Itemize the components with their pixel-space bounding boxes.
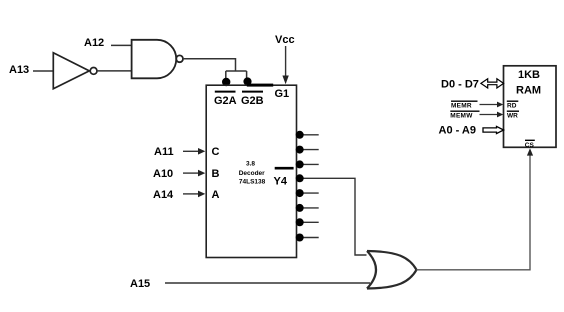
junction dot Y7 — [296, 218, 304, 226]
wire A13 to inverter — [33, 70, 54, 72]
junction dot Y2 — [296, 160, 304, 168]
svg-text:A0 - A9: A0 - A9 — [439, 125, 477, 137]
svg-text:A14: A14 — [153, 189, 174, 201]
junction dot Y0 — [296, 131, 304, 139]
pin label Y4 (active low) — [274, 168, 294, 187]
inverter U2 (NOT gate) — [53, 53, 97, 89]
svg-text:C: C — [212, 146, 220, 158]
svg-text:D0 - D7: D0 - D7 — [441, 78, 479, 90]
OR gate U4 — [367, 251, 417, 289]
junction dot Y4 — [296, 174, 304, 182]
junction dot Y6 — [296, 204, 304, 212]
junction dot Y8 — [296, 234, 304, 242]
output stub Y5 — [297, 192, 319, 194]
svg-text:WR: WR — [507, 113, 518, 120]
svg-text:A12: A12 — [84, 37, 104, 49]
svg-text:A15: A15 — [130, 278, 150, 290]
wire Y4 output to OR gate — [297, 178, 367, 255]
svg-text:RAM: RAM — [516, 85, 541, 97]
svg-text:Y4: Y4 — [274, 176, 288, 188]
wire A14 to pin A with arrowhead — [183, 191, 205, 198]
pin label G2B (active low) — [241, 92, 264, 107]
wire OR output to RAM CS with arrowhead — [417, 148, 534, 270]
output stub Y2 — [297, 163, 319, 165]
thick top edge segment — [247, 84, 273, 87]
wire Vcc to G1 with arrowhead — [282, 46, 288, 84]
svg-text:G2A: G2A — [214, 95, 237, 107]
output stub Y6 — [297, 207, 319, 209]
label MEMW (active low) — [450, 111, 479, 120]
svg-text:Vcc: Vcc — [275, 34, 295, 46]
wire MEMW to WR with arrowhead — [480, 112, 504, 118]
svg-text:RD: RD — [507, 103, 517, 110]
wire A15 to OR gate — [165, 282, 370, 284]
output stub Y0 — [297, 134, 319, 136]
svg-text:MEMW: MEMW — [450, 113, 473, 120]
NAND gate U3 — [132, 40, 183, 79]
svg-text:G1: G1 — [275, 88, 290, 100]
wire MEMR to RD with arrowhead — [480, 102, 504, 108]
wire NAND output to enable dots — [183, 59, 247, 80]
svg-text:Decoder: Decoder — [239, 170, 265, 177]
pin label RD (active low) — [507, 101, 519, 110]
pin label G2A (active low) — [214, 92, 237, 107]
junction dot Y1 — [296, 146, 304, 154]
svg-text:3.8: 3.8 — [246, 160, 255, 167]
output stub Y8 — [297, 237, 319, 239]
svg-text:A11: A11 — [154, 146, 174, 158]
decoder U1 74LS138 box — [206, 85, 296, 257]
value label 3.8 Decoder 74LS138 — [239, 160, 266, 185]
junction dot G2B — [243, 77, 251, 85]
output stub Y1 — [297, 149, 319, 151]
svg-text:A10: A10 — [153, 168, 173, 180]
wire A10 to pin B with arrowhead — [183, 170, 205, 177]
wire inverter to NAND input — [97, 70, 132, 72]
bidirectional bus arrow D0-D7 — [481, 79, 504, 88]
wire A12 to NAND input — [111, 44, 132, 46]
wire A11 to pin C with arrowhead — [183, 148, 205, 155]
pin label CS (active low) — [525, 140, 535, 149]
RAM U5 box — [504, 66, 557, 148]
junction dot Y5 — [296, 189, 304, 197]
svg-text:MEMR: MEMR — [451, 103, 472, 110]
svg-text:1KB: 1KB — [518, 69, 540, 81]
svg-text:A: A — [212, 189, 220, 201]
svg-text:74LS138: 74LS138 — [239, 178, 266, 185]
svg-text:B: B — [212, 168, 220, 180]
svg-text:G2B: G2B — [241, 95, 264, 107]
bus arrow A0-A9 — [483, 126, 504, 133]
label MEMR (active low) — [451, 101, 478, 110]
svg-text:A13: A13 — [9, 64, 29, 76]
pin label WR (active low) — [507, 111, 519, 120]
junction dot G2A — [222, 78, 230, 86]
output stub Y7 — [297, 221, 319, 223]
svg-text:CS: CS — [525, 142, 535, 149]
